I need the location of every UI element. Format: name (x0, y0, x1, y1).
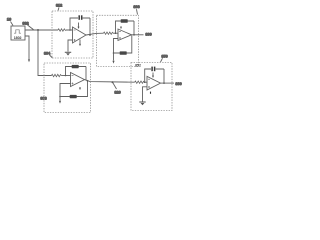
op-amp U4 (147, 76, 161, 90)
node feedback tap U1 (69, 29, 71, 31)
wire U1 output to stage 806 (86, 33, 104, 35)
U3 plus sign (72, 83, 74, 85)
wire U1 feedback down to output (89, 18, 91, 35)
svg-text:852: 852 (135, 64, 141, 68)
arrow below U1 (79, 40, 81, 45)
node U3 output (87, 80, 89, 82)
svg-text:802: 802 (22, 20, 29, 25)
feedback resistor R6 (dark element) (72, 65, 79, 68)
arrowhead below U1 (79, 44, 81, 46)
wire R2 to U2 (113, 32, 118, 34)
U4 plus sign (148, 86, 150, 88)
U3 minus sign (72, 74, 74, 76)
dashed box 806 (stage 2) (97, 15, 139, 66)
wire U4 feedback down to output (163, 69, 165, 83)
op-amp U3 (71, 73, 85, 87)
ground arrow U3 (59, 97, 61, 101)
wire U4 plus input to ground (143, 87, 148, 102)
wire U2 feedback down to output (133, 21, 135, 35)
svg-text:10: 10 (7, 17, 12, 22)
leader for label 820 (113, 82, 117, 89)
capacitor C2 bar2 (154, 67, 156, 72)
wire source second terminal (25, 36, 29, 59)
svg-text:820: 820 (114, 90, 121, 95)
arrowhead source second terminal (28, 59, 30, 62)
lower feedback resistor R4 (dark element) (120, 51, 127, 54)
mark below U3 (79, 87, 81, 89)
lower feedback wire U3 (60, 80, 88, 96)
svg-text:850: 850 (161, 53, 168, 58)
arrowhead ground U2 (112, 61, 114, 64)
arrowhead above U1 (78, 27, 80, 29)
node feedback tap U4 (144, 81, 146, 83)
leader for label 10 (11, 22, 14, 26)
arrow above U1 (78, 23, 80, 28)
svg-text:804: 804 (44, 50, 51, 55)
mark below U4 (150, 92, 152, 94)
wire R8 to U4 (144, 81, 147, 83)
U2 minus sign (119, 30, 121, 32)
arrow below C2 (152, 73, 154, 77)
svg-text:860: 860 (175, 81, 182, 86)
leader for label 850 (161, 58, 163, 62)
wire U1 feedback up (70, 18, 90, 30)
node U2 output (133, 34, 135, 36)
svg-text:1802: 1802 (14, 36, 22, 40)
resistor R8 on U4 input (135, 81, 144, 83)
svg-text:830: 830 (145, 31, 152, 36)
svg-text:806: 806 (133, 4, 140, 9)
svg-text:812: 812 (56, 3, 63, 8)
node U2 lower junction (113, 52, 115, 54)
lower feedback resistor R7 (dark element) (70, 95, 77, 98)
node U1 output (89, 34, 91, 36)
capacitor C2 bar1 (151, 67, 153, 72)
U2 plus sign (119, 37, 121, 39)
wire U2 feedback up (116, 21, 135, 33)
resistor R1 on U1 input (58, 29, 66, 31)
mark above U2 (120, 26, 122, 28)
leader for label 804 (50, 55, 53, 58)
wire U3 output to stage 4 (85, 80, 135, 83)
resistor R2 on U2 input (104, 32, 114, 34)
op-amp U1 (73, 27, 87, 43)
wire U2 plus input down (114, 39, 119, 54)
arrowhead ground U3 (59, 101, 61, 104)
ground arrow U2 (113, 53, 115, 61)
node U3 lower junction (59, 96, 61, 98)
wire source output to U1 (25, 29, 73, 31)
feedback resistor R3 (dark element) (121, 19, 128, 22)
wire U4 feedback up (145, 69, 164, 82)
wire U3 feedback down to output (85, 67, 87, 81)
ground U4 (139, 101, 145, 103)
source box 802 (11, 26, 25, 40)
capacitor C1 bar2 (81, 15, 83, 19)
wire junction down to stage 808 (38, 30, 52, 76)
dashed box 808 (stage 3) (44, 63, 91, 113)
node junction at 38,30 (37, 29, 39, 31)
U1 plus sign (74, 39, 76, 41)
dashed box 850 (stage 4) (131, 63, 172, 111)
leader for label 806 (137, 9, 138, 14)
wire U1 plus input to ground (68, 40, 73, 52)
arrowhead below C2 (152, 76, 154, 78)
wire U3 plus input down (60, 84, 71, 97)
wire U3 feedback up (66, 67, 87, 76)
source pulse glyph (14, 30, 21, 33)
wire R5 to U3 (61, 75, 70, 77)
leader for label 812 (58, 7, 59, 10)
wire U4 output (161, 82, 175, 84)
node junction on long wire (112, 81, 114, 83)
node feedback tap U3 (65, 75, 67, 77)
dashed box 812 (stage 1) (52, 11, 93, 58)
leader for label 802 (28, 25, 34, 30)
node U4 output (163, 82, 165, 84)
resistor R5 on U3 input (52, 74, 62, 76)
U1 minus sign (74, 29, 76, 31)
capacitor C1 bar1 (78, 15, 80, 19)
lower feedback wire U2 (114, 35, 132, 53)
wire U2 output (132, 34, 144, 36)
U4 minus sign (148, 78, 150, 80)
ground U1 (65, 51, 71, 53)
op-amp U2 (118, 29, 132, 41)
node feedback tap U2 (115, 32, 117, 34)
